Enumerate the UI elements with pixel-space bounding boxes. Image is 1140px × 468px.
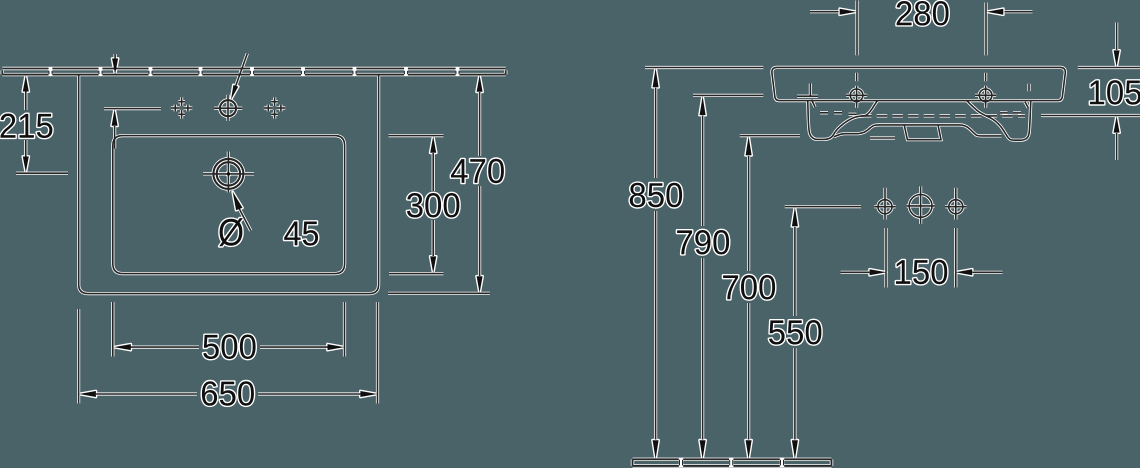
white hatch gap slits: [49, 67, 785, 467]
wall hatch gap slits: [49, 67, 460, 76]
floor hatch gap slits: [679, 458, 784, 468]
hatch gap ticks: [49, 71, 784, 466]
